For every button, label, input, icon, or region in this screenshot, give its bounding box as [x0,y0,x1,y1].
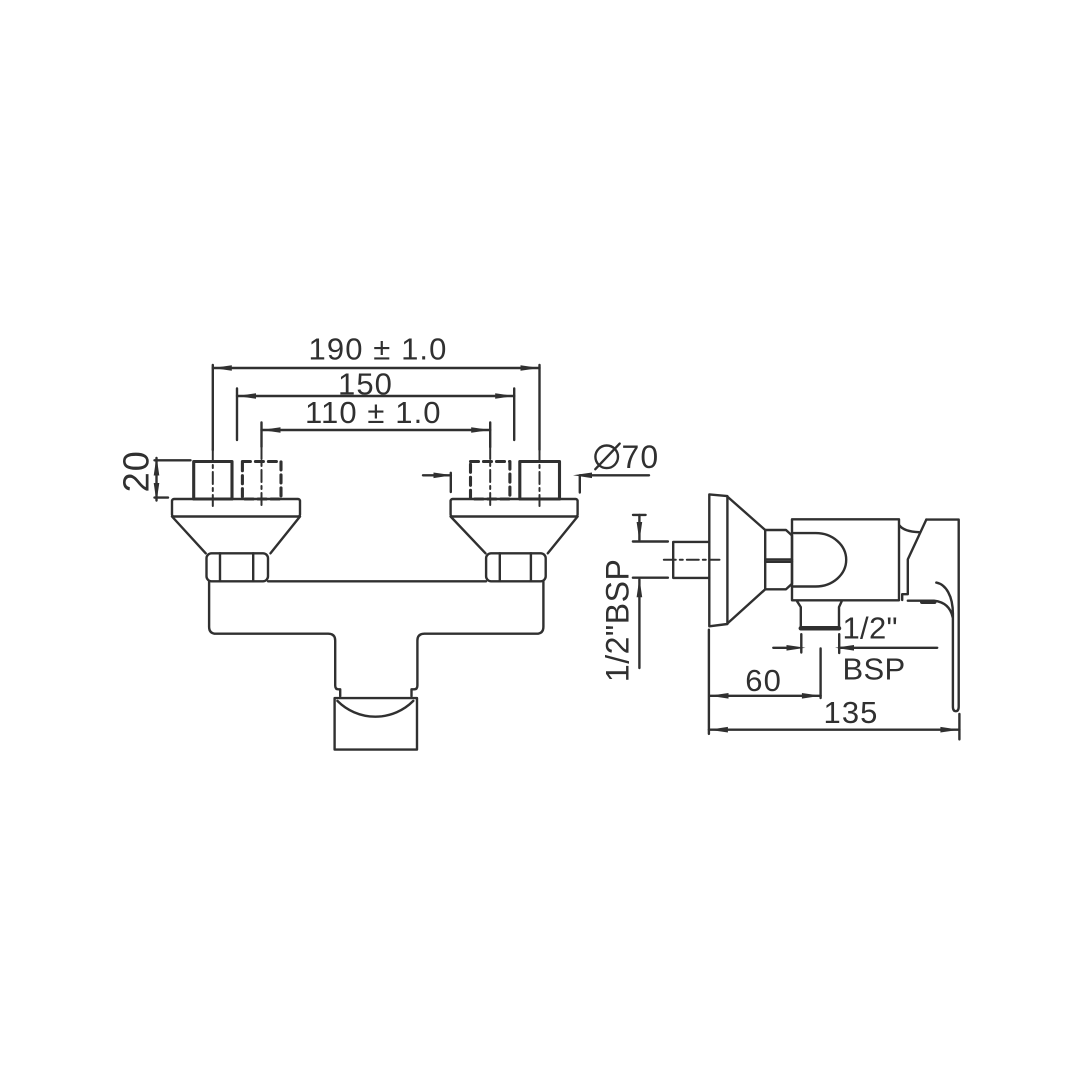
svg-text:135: 135 [823,695,878,730]
svg-text:190 ± 1.0: 190 ± 1.0 [309,332,448,367]
svg-text:BSP: BSP [843,652,906,687]
svg-text:1/2": 1/2" [843,611,898,646]
svg-text:60: 60 [745,663,782,698]
svg-text:70: 70 [622,439,660,475]
svg-text:1/2"BSP: 1/2"BSP [600,559,636,682]
svg-text:110 ± 1.0: 110 ± 1.0 [305,395,442,430]
svg-text:20: 20 [116,450,157,492]
